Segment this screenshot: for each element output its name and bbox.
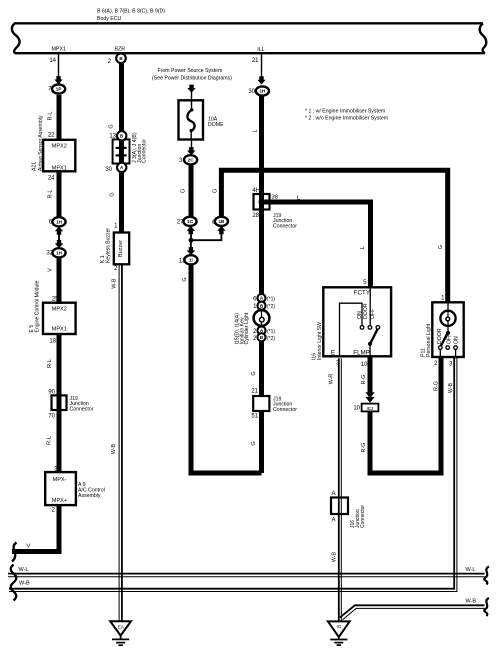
svg-text:A21: A21 [32,162,38,171]
svg-text:38: 38 [272,195,278,201]
svg-text:W-B: W-B [448,382,454,393]
svg-text:Connector: Connector [70,406,94,412]
svg-text:1H: 1H [56,250,63,255]
svg-text:30: 30 [248,89,255,95]
svg-text:G: G [251,441,257,445]
svg-text:FLMP: FLMP [353,349,370,356]
svg-text:G: G [251,371,257,375]
svg-text:10: 10 [361,362,368,368]
svg-text:E: E [331,349,335,356]
svg-text:18: 18 [49,339,56,345]
svg-text:IE2: IE2 [367,406,374,411]
svg-text:DOOR: DOOR [437,328,443,344]
svg-text:W-B: W-B [112,278,118,289]
svg-text:G: G [110,192,116,196]
svg-text:MPX-: MPX- [53,477,67,483]
svg-text:1H: 1H [259,89,266,94]
svg-text:W-B: W-B [19,581,30,587]
svg-text:4H: 4H [252,188,260,194]
svg-text:1C: 1C [187,219,194,224]
svg-text:1H: 1H [56,219,63,224]
svg-text:G: G [181,189,187,193]
svg-text:25: 25 [52,297,59,303]
svg-text:Personal Light: Personal Light [426,323,432,357]
svg-text:A: A [331,491,335,497]
svg-text:DOME: DOME [208,122,224,128]
svg-text:L: L [253,129,259,132]
svg-text:MPX2: MPX2 [52,307,67,313]
svg-text:(See Power Distribution Diagra: (See Power Distribution Diagrams) [152,76,232,82]
svg-text:R-G: R-G [434,381,440,391]
svg-text:W-B: W-B [111,443,117,454]
svg-text:W-L: W-L [19,567,29,573]
svg-text:EA: EA [118,625,125,630]
svg-text:W-L: W-L [466,567,476,573]
svg-text:Interior Light SW: Interior Light SW [317,322,323,360]
svg-text:MPX1: MPX1 [52,327,67,333]
svg-text:G: G [213,189,219,193]
svg-text:1I: 1I [189,257,193,262]
svg-text:13: 13 [109,134,116,140]
svg-text:32: 32 [46,251,53,257]
svg-text:Body ECU: Body ECU [97,16,121,22]
svg-text:FCTY: FCTY [354,290,370,297]
svg-text:B 6(A), B 7(B), B 8(C), B 9(D): B 6(A), B 7(B), B 8(C), B 9(D) [97,9,165,15]
svg-text:R-L: R-L [48,112,54,121]
svg-text:70: 70 [48,414,55,420]
svg-text:14: 14 [49,58,56,64]
svg-text:V: V [48,268,54,272]
svg-text:21: 21 [252,58,259,64]
svg-text:R-G: R-G [361,443,367,453]
svg-text:MPX1: MPX1 [52,47,66,53]
svg-text:R-L: R-L [47,359,53,368]
svg-text:R-G: R-G [361,375,367,385]
svg-text:W-B: W-B [466,598,477,604]
svg-text:Assembly: Assembly [78,493,101,499]
svg-text:(*1): (*1) [267,297,275,303]
svg-text:1P: 1P [56,87,62,92]
svg-text:13: 13 [179,259,186,265]
svg-text:V: V [27,544,31,550]
svg-text:MPX1: MPX1 [52,166,67,172]
svg-text:51: 51 [251,414,258,420]
svg-text:W-B: W-B [332,551,338,562]
svg-text:90: 90 [48,390,55,396]
svg-text:* 1 : w/ Engine Immobiliser Sy: * 1 : w/ Engine Immobiliser System [305,109,385,115]
svg-text:Cylinder Light: Cylinder Light [244,312,250,344]
svg-text:1B: 1B [218,219,225,224]
svg-text:W-R: W-R [329,374,335,385]
svg-text:28: 28 [252,213,259,219]
svg-text:OFF: OFF [370,309,376,319]
svg-text:Engine Control Module: Engine Control Module [34,281,40,333]
svg-text:G: G [182,277,188,281]
svg-text:MPX+: MPX+ [52,498,67,504]
svg-text:27: 27 [177,220,184,226]
svg-text:30: 30 [105,167,112,173]
svg-text:R-L: R-L [47,436,53,445]
svg-text:OFF: OFF [447,334,453,344]
svg-text:22: 22 [48,133,55,139]
svg-text:Connector: Connector [142,139,148,163]
svg-text:DOOR: DOOR [363,303,369,319]
svg-text:(*2): (*2) [267,304,275,310]
svg-text:Connector: Connector [273,407,297,413]
svg-text:(*2): (*2) [267,336,275,342]
svg-text:G: G [438,245,444,249]
svg-text:Buzzer: Buzzer [118,240,124,257]
svg-text:(*1): (*1) [267,329,275,335]
svg-text:Keyless Buzzer: Keyless Buzzer [105,228,111,263]
svg-text:10: 10 [353,406,360,412]
svg-text:ON: ON [454,336,460,344]
svg-text:Connector: Connector [360,505,366,528]
svg-text:2C: 2C [188,157,195,162]
svg-text:Connector: Connector [273,223,297,229]
svg-text:R-L: R-L [48,190,54,199]
svg-text:BZR: BZR [115,46,126,52]
svg-text:L: L [360,246,366,249]
svg-text:A: A [331,518,335,524]
svg-text:From Power Source System: From Power Source System [158,68,223,74]
svg-text:MPX2: MPX2 [52,144,67,150]
svg-text:G: G [109,124,115,128]
svg-text:21: 21 [251,389,258,395]
svg-text:Airbag Sensor Assembly: Airbag Sensor Assembly [38,115,44,171]
svg-text:IG: IG [336,624,341,629]
svg-text:ILL: ILL [257,47,264,53]
svg-text:24: 24 [48,176,55,182]
svg-text:* 2 : w/o Engine Immobiliser S: * 2 : w/o Engine Immobiliser System [305,116,388,122]
